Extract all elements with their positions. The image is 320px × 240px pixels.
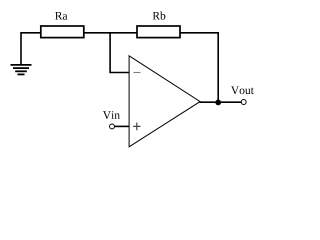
wire feedback tap to inverting input <box>110 33 129 73</box>
node output junction <box>215 100 221 106</box>
terminal Vin <box>110 124 115 129</box>
terminal Vout <box>241 100 246 105</box>
label Vout <box>231 87 254 95</box>
wire ground riser to Ra <box>21 33 41 65</box>
wire output <box>200 101 242 103</box>
wire Ra to Rb <box>84 32 137 34</box>
label Rb <box>153 12 166 20</box>
wire Vin to plus input <box>114 125 129 127</box>
ground <box>11 65 32 75</box>
op-amp U1 <box>129 56 200 147</box>
label Vin <box>103 111 120 119</box>
resistor Rb <box>137 26 180 38</box>
op-amp plus pin mark <box>133 123 140 131</box>
op-amp minus pin mark <box>133 72 140 74</box>
wire Rb to output node <box>180 33 218 102</box>
label Ra <box>55 12 67 20</box>
resistor Ra <box>41 26 84 38</box>
